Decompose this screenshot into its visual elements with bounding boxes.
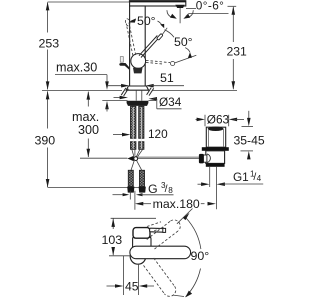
lines junction to lower hoses (131, 161, 142, 171)
390 bottom reference line (48, 186, 144, 188)
dim 35-45 (241, 111, 254, 160)
pull rod left segment (80, 157, 127, 159)
svg-text:45: 45 (125, 280, 139, 294)
svg-text:90°: 90° (191, 249, 210, 263)
dim 253 (46, 2, 50, 90)
lower hose nuts G3/8 (127, 187, 146, 193)
top view base circle (130, 249, 146, 265)
drain tailpipe G1 1/4 (210, 167, 217, 210)
dim Ø63 (196, 115, 245, 127)
ghost spout up-right (147, 209, 193, 250)
counter break marks (121, 88, 154, 97)
dim 231 (232, 6, 236, 89)
90deg swivel arc (183, 213, 201, 298)
shank threads (136, 90, 142, 100)
junction arrowhead (127, 156, 133, 162)
50deg no.1 arcs and arrows (128, 18, 164, 28)
dim Ø34 leader (114, 96, 182, 109)
top view lever (133, 228, 150, 239)
svg-text:max.30: max.30 (56, 60, 97, 74)
svg-text:Ø34: Ø34 (159, 95, 182, 109)
dim 51 (106, 84, 184, 88)
50deg no.2 arc and arrow (165, 30, 193, 58)
lower hoses braided (128, 170, 144, 186)
drain body (206, 151, 225, 167)
ghost lever dashes top view (147, 222, 164, 233)
tiny dim at hose ends (113, 191, 174, 200)
aerator (175, 5, 185, 23)
drain side knob (202, 155, 207, 162)
0-6deg leader lines (186, 6, 236, 16)
svg-text:300: 300 (78, 123, 99, 137)
svg-text:50°: 50° (137, 14, 156, 28)
dim 103 top ref line (111, 217, 156, 219)
svg-text:G1: G1 (233, 170, 249, 184)
ghost spout down-right (144, 258, 185, 297)
mounting nut (127, 101, 149, 106)
hose taper to junction (132, 149, 143, 156)
svg-text:103: 103 (102, 233, 123, 247)
dim max.180 (135, 191, 216, 210)
drain flange (202, 147, 229, 151)
counter top line (42, 89, 237, 91)
base flare (126, 86, 148, 90)
svg-text:50°: 50° (174, 35, 193, 49)
top view lever handle bar (150, 228, 166, 232)
svg-text:253: 253 (39, 36, 60, 50)
dashed rod up-left position (125, 18, 136, 55)
dim G1 1/4 arrows (198, 182, 264, 186)
svg-text:390: 390 (35, 133, 56, 147)
drain cap (206, 127, 225, 148)
ball joint (131, 54, 146, 69)
top view spout stadium (130, 246, 191, 259)
dim max.300 (87, 91, 91, 157)
rod tip cap (157, 33, 163, 40)
hose crimps (131, 106, 143, 112)
faucet body (130, 6, 146, 86)
dim 103 bottom ref line (109, 255, 130, 257)
svg-text:8: 8 (168, 186, 173, 195)
dim 253 reference top line (48, 1, 130, 3)
cartridge under ball (133, 68, 143, 74)
svg-text:G: G (148, 182, 158, 196)
spout bar (129, 1, 186, 6)
dim 120 leader (113, 133, 130, 137)
solid joystick rod (139, 36, 159, 58)
svg-text:Ø63: Ø63 (207, 113, 230, 127)
counter bottom line (102, 100, 156, 102)
svg-text:51: 51 (160, 71, 174, 85)
aerator tilt arcs 0-6deg (167, 10, 193, 19)
dashed rod horizontal position (146, 55, 196, 65)
svg-text:/: / (165, 183, 168, 195)
top view body square (133, 237, 151, 252)
dim 103 (111, 219, 115, 256)
dim 45 (107, 256, 155, 295)
junction circle (134, 157, 138, 161)
pull rod to drain (138, 157, 200, 158)
svg-text:max.: max. (72, 110, 99, 124)
svg-text:231: 231 (227, 45, 248, 59)
svg-text:0°-6°: 0°-6° (196, 0, 225, 12)
svg-text:4: 4 (257, 174, 262, 183)
svg-text:35-45: 35-45 (234, 134, 265, 148)
dim 390 (46, 91, 50, 187)
lever handle side view (119, 57, 129, 70)
svg-text:120: 120 (148, 127, 168, 141)
svg-text:max.180: max.180 (153, 197, 200, 211)
